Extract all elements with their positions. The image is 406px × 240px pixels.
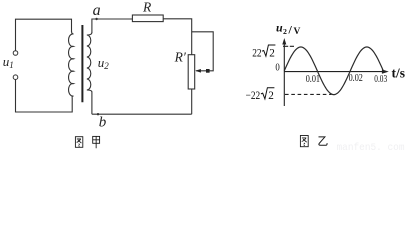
node a junction dot [95, 18, 97, 20]
transformer core [81, 25, 83, 102]
svg-text:b: b [99, 115, 107, 131]
dash marks at +22sqrt2 level [283, 45, 294, 47]
wire: secondary bottom rail [92, 113, 192, 115]
svg-text:R: R [142, 0, 152, 15]
rheostat slider contact [206, 69, 210, 73]
primary coil P1 [69, 31, 74, 98]
caption 图 of 图乙 [300, 136, 308, 147]
svg-text:0.01: 0.01 [306, 74, 320, 85]
svg-text:0.03: 0.03 [374, 74, 387, 85]
wire: secondary top lead to node a and resistor R [92, 19, 132, 33]
svg-text:−22: −22 [246, 88, 261, 102]
svg-text:manfen5. com: manfen5. com [337, 142, 405, 151]
secondary coil S1 [87, 33, 92, 93]
node b junction dot [97, 113, 99, 115]
x-axis (t axis) [284, 71, 384, 73]
caption 图 (figure) of 图甲 [75, 137, 82, 148]
label 22sqrt2 [252, 45, 275, 60]
svg-text:u1: u1 [3, 54, 14, 70]
wire: resistor R to rheostat top [163, 19, 192, 55]
svg-text:2: 2 [269, 46, 275, 60]
terminal circle bottom [13, 75, 18, 80]
wire: secondary bottom lead [91, 92, 93, 115]
y-axis arrowhead [282, 38, 286, 45]
svg-text:u2/V: u2/V [276, 21, 300, 37]
x-axis arrowhead [382, 69, 389, 73]
rheostat wiper arrowhead [195, 69, 201, 73]
svg-text:a: a [93, 2, 101, 19]
svg-text:2: 2 [268, 88, 274, 102]
terminal circle top [13, 51, 18, 56]
svg-text:0.02: 0.02 [349, 73, 363, 84]
svg-text:0: 0 [275, 63, 279, 74]
wire: primary top (source to coil) [16, 19, 72, 50]
dashed line at -22sqrt2 level [285, 93, 332, 95]
rheostat R' body [188, 55, 195, 89]
y-axis (u2 axis) [283, 44, 285, 107]
wire: rheostat bottom lead [191, 89, 193, 114]
label -22sqrt2 [246, 88, 275, 103]
svg-text:u2: u2 [98, 55, 110, 71]
svg-text:R′: R′ [174, 50, 187, 65]
caption 乙 of 图乙 [319, 137, 328, 145]
sine curve of u2 [284, 47, 383, 95]
resistor R body [132, 15, 163, 22]
svg-text:22: 22 [252, 46, 261, 60]
svg-text:t/s: t/s [392, 66, 406, 81]
wire: wiper branch [192, 32, 214, 71]
caption 甲 of 图甲 [93, 136, 100, 148]
wire: primary bottom (source to coil) [16, 80, 73, 112]
